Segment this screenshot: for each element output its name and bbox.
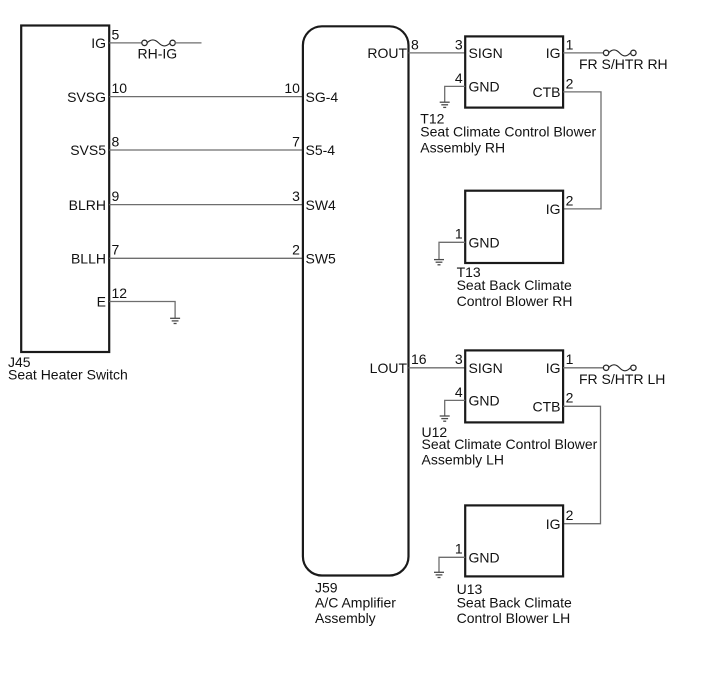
- blower U12 body: [465, 350, 563, 422]
- U12 pin number 1: [566, 351, 574, 367]
- label T12 Seat Climate Control Blower Assembly RH: [420, 111, 596, 156]
- connector J59 body (A/C Amplifier): [303, 26, 409, 575]
- label U12 Seat Climate Control Blower Assembly LH: [422, 424, 598, 468]
- svg-text:2: 2: [566, 390, 574, 406]
- label FR S/HTR LH: [579, 371, 665, 387]
- wire LOUT to U12 SIGN: [409, 367, 466, 369]
- T12 port label IG: [546, 45, 561, 61]
- svg-text:IG: IG: [546, 516, 561, 532]
- wire U12 IG to fusible link: [563, 367, 603, 369]
- J59 port label SW4: [306, 197, 337, 213]
- U12 port label SIGN: [469, 360, 503, 376]
- J59 port label S5-4: [306, 142, 336, 158]
- svg-text:FR S/HTR RH: FR S/HTR RH: [579, 56, 668, 72]
- label FR S/HTR RH: [579, 56, 668, 72]
- connector J45 body: [21, 26, 109, 353]
- wire ROUT to T12 SIGN: [409, 52, 466, 54]
- svg-text:5: 5: [112, 26, 120, 42]
- ground symbol for T13: [434, 260, 444, 265]
- T13 port label IG: [546, 201, 561, 217]
- wire U12 CTB to U13 IG: [563, 406, 600, 523]
- svg-text:4: 4: [455, 384, 463, 400]
- label J59 A/C Amplifier Assembly: [315, 580, 396, 627]
- J45 pin label SVSG: [67, 89, 106, 105]
- T13 port label GND: [469, 235, 500, 251]
- blower T13 body: [465, 191, 563, 263]
- U13 pin number 2: [566, 507, 574, 523]
- svg-text:16: 16: [411, 351, 427, 367]
- svg-text:GND: GND: [469, 393, 500, 409]
- svg-text:Seat Back Climate: Seat Back Climate: [457, 594, 572, 610]
- U12 pin number 3: [455, 351, 463, 367]
- fusible link FR S/HTR RH: [603, 50, 636, 56]
- wire U13 GND to ground: [439, 557, 465, 572]
- U12 port label IG: [546, 360, 561, 376]
- label RH-IG: [138, 46, 178, 62]
- T12 pin number 4: [455, 70, 463, 86]
- U12 pin number 4: [455, 384, 463, 400]
- svg-text:9: 9: [112, 188, 120, 204]
- svg-text:IG: IG: [546, 201, 561, 217]
- fusible link FR S/HTR LH: [603, 365, 636, 371]
- T12 port label GND: [469, 79, 500, 95]
- U12 pin number 2: [566, 390, 574, 406]
- wire T12 CTB to T13 IG: [563, 92, 601, 209]
- svg-text:Assembly: Assembly: [315, 610, 376, 626]
- svg-text:Seat Climate Control Blower: Seat Climate Control Blower: [420, 124, 596, 140]
- wire J45 IG to fusible link: [109, 42, 142, 44]
- label J45 Seat Heater Switch: [8, 354, 128, 383]
- svg-text:Control Blower LH: Control Blower LH: [457, 610, 571, 626]
- svg-text:FR S/HTR LH: FR S/HTR LH: [579, 371, 665, 387]
- wire T12 GND to ground: [445, 86, 466, 102]
- T12 pin number 3: [455, 36, 463, 52]
- svg-text:GND: GND: [469, 235, 500, 251]
- svg-text:SW5: SW5: [306, 251, 337, 267]
- svg-text:SVS5: SVS5: [70, 142, 106, 158]
- T12 port label CTB: [533, 84, 561, 100]
- T12 port label SIGN: [469, 45, 503, 61]
- J45 pin label E: [97, 294, 106, 310]
- svg-text:SIGN: SIGN: [469, 45, 503, 61]
- wire BLLH to SW5: [109, 257, 303, 259]
- svg-text:GND: GND: [469, 550, 500, 566]
- fusible link RH-IG: [142, 40, 202, 46]
- J45 pin label BLRH: [69, 197, 106, 213]
- svg-text:BLLH: BLLH: [71, 251, 106, 267]
- U13 port label GND: [469, 550, 500, 566]
- svg-text:IG: IG: [546, 360, 561, 376]
- wire E to ground: [109, 302, 175, 319]
- svg-text:8: 8: [112, 133, 120, 149]
- blower T12 body: [465, 36, 563, 107]
- wire BLRH to SW4: [109, 204, 303, 206]
- blower U13 body: [465, 505, 563, 576]
- svg-text:SIGN: SIGN: [469, 360, 503, 376]
- label T13 Seat Back Climate Control Blower RH: [457, 264, 573, 309]
- svg-text:1: 1: [566, 36, 574, 52]
- J59 pin number 2: [292, 242, 300, 258]
- J45 pin number 8: [112, 133, 120, 149]
- svg-text:SW4: SW4: [306, 197, 337, 213]
- wire T12 IG to fusible link: [563, 52, 603, 54]
- svg-text:Seat Heater Switch: Seat Heater Switch: [8, 367, 128, 383]
- svg-text:8: 8: [411, 36, 419, 52]
- svg-text:SG-4: SG-4: [306, 89, 339, 105]
- svg-text:IG: IG: [546, 45, 561, 61]
- wire SVSG to SG-4: [109, 96, 303, 98]
- svg-text:12: 12: [112, 285, 128, 301]
- J59 port label SG-4: [306, 89, 339, 105]
- J59 port label ROUT: [367, 45, 407, 61]
- J45 pin number 5: [112, 26, 120, 42]
- J45 pin number 12: [112, 285, 128, 301]
- svg-text:S5-4: S5-4: [306, 142, 336, 158]
- U13 port label IG: [546, 516, 561, 532]
- svg-text:1: 1: [455, 541, 463, 557]
- svg-text:2: 2: [566, 192, 574, 208]
- J45 pin number 9: [112, 188, 120, 204]
- svg-text:Seat Back Climate: Seat Back Climate: [457, 277, 572, 293]
- ground symbol for T12: [440, 102, 450, 107]
- J59 port label SW5: [306, 251, 337, 267]
- ground symbol for U12: [440, 416, 450, 421]
- svg-text:GND: GND: [469, 79, 500, 95]
- svg-text:3: 3: [455, 351, 463, 367]
- J59 pin number 7: [292, 133, 300, 149]
- label U13 Seat Back Climate Control Blower LH: [457, 581, 572, 626]
- J59 pin number 3: [292, 188, 300, 204]
- ground symbol for J45 E: [170, 318, 180, 323]
- wire U12 GND to ground: [445, 400, 466, 416]
- J45 pin number 10: [112, 80, 128, 96]
- svg-text:3: 3: [292, 188, 300, 204]
- svg-text:10: 10: [284, 80, 300, 96]
- ground symbol for U13: [434, 572, 444, 577]
- T12 pin number 1: [566, 36, 574, 52]
- svg-text:Control Blower RH: Control Blower RH: [457, 293, 573, 309]
- svg-text:LOUT: LOUT: [370, 360, 408, 376]
- svg-text:CTB: CTB: [533, 84, 561, 100]
- J59 port label LOUT: [370, 360, 408, 376]
- svg-text:10: 10: [112, 80, 128, 96]
- J45 pin label SVS5: [70, 142, 106, 158]
- J59 pin number 8: [411, 36, 419, 52]
- J59 pin number 16: [411, 351, 427, 367]
- svg-text:7: 7: [292, 133, 300, 149]
- svg-text:Assembly RH: Assembly RH: [420, 139, 505, 155]
- svg-text:2: 2: [292, 242, 300, 258]
- svg-text:SVSG: SVSG: [67, 89, 106, 105]
- U13 pin number 1: [455, 541, 463, 557]
- svg-text:3: 3: [455, 36, 463, 52]
- svg-text:4: 4: [455, 70, 463, 86]
- svg-text:1: 1: [566, 351, 574, 367]
- J45 pin number 7: [112, 242, 120, 258]
- T13 pin number 1: [455, 226, 463, 242]
- svg-text:BLRH: BLRH: [69, 197, 106, 213]
- svg-text:CTB: CTB: [533, 399, 561, 415]
- svg-text:ROUT: ROUT: [367, 45, 407, 61]
- svg-text:2: 2: [566, 507, 574, 523]
- svg-text:2: 2: [566, 75, 574, 91]
- svg-text:Seat Climate Control Blower: Seat Climate Control Blower: [422, 436, 598, 452]
- wire SVS5 to S5-4: [109, 149, 303, 151]
- T13 pin number 2: [566, 192, 574, 208]
- svg-text:J59: J59: [315, 580, 338, 596]
- svg-text:Assembly LH: Assembly LH: [422, 452, 504, 468]
- svg-text:E: E: [97, 294, 106, 310]
- U12 port label CTB: [533, 399, 561, 415]
- J45 pin label BLLH: [71, 251, 106, 267]
- svg-text:IG: IG: [91, 35, 106, 51]
- U12 port label GND: [469, 393, 500, 409]
- J59 pin number 10: [284, 80, 300, 96]
- T12 pin number 2: [566, 75, 574, 91]
- svg-text:RH-IG: RH-IG: [138, 46, 178, 62]
- J45 pin label IG: [91, 35, 106, 51]
- svg-text:A/C Amplifier: A/C Amplifier: [315, 594, 396, 610]
- wire T13 GND to ground: [439, 242, 465, 259]
- svg-text:7: 7: [112, 242, 120, 258]
- svg-text:1: 1: [455, 226, 463, 242]
